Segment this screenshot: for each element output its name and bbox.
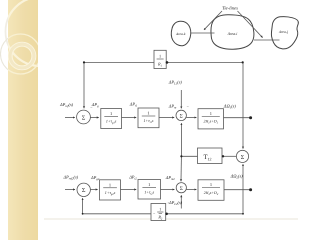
node: terminal into 1/R2 bbox=[165, 213, 168, 216]
tie summer circle bbox=[236, 150, 248, 162]
tie line i-j bbox=[254, 39, 280, 41]
faint circle arcs on white left of band bbox=[1, 0, 75, 74]
summer S2 top circle bbox=[176, 110, 186, 120]
node: corner top-left bbox=[83, 61, 85, 63]
blob Area-j bbox=[271, 17, 298, 49]
wire: S1 to governor block row1 bbox=[90, 117, 98, 119]
wire: tie feed down into S2 bottom row bbox=[180, 156, 182, 181]
blob Area-k bbox=[171, 21, 190, 45]
governor block row1 bbox=[101, 109, 122, 129]
node: tie junction bbox=[180, 155, 182, 157]
wire: input arrow row1 bbox=[65, 117, 75, 119]
turbine block row1 bbox=[138, 108, 159, 128]
inertia block row1 bbox=[198, 109, 224, 129]
summer S1 top circle bbox=[77, 110, 91, 124]
node: terminal into 1/R1 bbox=[166, 61, 169, 64]
svg-text:Σ: Σ bbox=[180, 113, 183, 119]
wire: load disturbance into S2 top bbox=[180, 90, 182, 108]
svg-text:Σ: Σ bbox=[180, 186, 183, 192]
svg-text:Σ: Σ bbox=[82, 187, 86, 194]
summer S2 bottom circle bbox=[176, 183, 186, 193]
wire: S2 to inertia block row2 bbox=[187, 189, 197, 191]
wire: feedback bottom horizontal left part bbox=[83, 213, 151, 215]
svg-text:Σ: Σ bbox=[241, 155, 245, 161]
svg-text:1: 1 bbox=[109, 182, 111, 187]
svg-text:1: 1 bbox=[210, 182, 212, 187]
wire: tie summer to T12 bbox=[222, 155, 236, 157]
pointer arrow left from Tie-lines bbox=[204, 11, 222, 30]
turbine block row2 bbox=[138, 180, 161, 200]
sidebar thin circle bbox=[1, 34, 41, 74]
wire: droop feedback down into S1 top bbox=[83, 63, 85, 109]
node: corner bottom-left bbox=[82, 213, 84, 215]
wire: turbine to S2 row2 bbox=[161, 189, 175, 191]
summer S1 bottom circle bbox=[77, 183, 90, 196]
pointer arrow right from Tie-lines bbox=[238, 11, 263, 38]
svg-text:Σ: Σ bbox=[82, 114, 86, 121]
node: corner top-right bbox=[242, 61, 244, 63]
sidebar thick ring bbox=[8, 42, 36, 70]
node: corner bottom-right bbox=[242, 213, 244, 215]
wire: feedback up into S1 bottom bbox=[82, 198, 84, 214]
wire: T12 output to junction bbox=[181, 155, 197, 157]
svg-text:1: 1 bbox=[110, 111, 112, 116]
svg-text:1: 1 bbox=[159, 54, 161, 59]
wire: feedback top horizontal left part bbox=[84, 62, 154, 64]
wire: row1 node down into tie summer bbox=[242, 118, 244, 149]
wire: feedback top horizontal right part bbox=[166, 62, 242, 64]
wire: S1 to governor block row2 bbox=[91, 189, 98, 191]
wire: S2 to inertia block row1 bbox=[186, 117, 196, 119]
svg-text:1: 1 bbox=[210, 111, 212, 116]
droop block -1/R2 bbox=[151, 204, 166, 221]
node: output terminal row2 bbox=[249, 188, 252, 191]
svg-text:Area-k: Area-k bbox=[175, 32, 186, 36]
wire: turbine to S2 row1 bbox=[159, 117, 174, 119]
inertia block row2 bbox=[198, 180, 224, 201]
svg-text:1: 1 bbox=[159, 207, 161, 212]
droop block 1/R1 bbox=[154, 50, 166, 68]
wire: feedback drop right row2 bbox=[242, 190, 244, 214]
sidebar big arc bbox=[6, 0, 75, 66]
svg-text:1: 1 bbox=[148, 182, 150, 187]
svg-text:Area-i: Area-i bbox=[227, 32, 238, 36]
blob Area-i bbox=[211, 15, 254, 49]
svg-text:Tie-lines: Tie-lines bbox=[222, 6, 238, 11]
wire: governor to turbine row1 bbox=[122, 117, 137, 119]
wire: feedback bottom horizontal right part bbox=[166, 213, 243, 215]
wire: input arrow row2 bbox=[65, 189, 75, 191]
svg-text:Area-j: Area-j bbox=[278, 30, 288, 34]
wire: governor to turbine row2 bbox=[121, 189, 137, 191]
wire: tie feed up into S2 top row bbox=[180, 123, 182, 156]
block T12 bbox=[198, 148, 223, 164]
wire: load disturbance into S2 bottom bbox=[180, 195, 182, 208]
node: output terminal row1 bbox=[249, 116, 252, 119]
node: terminal into T12 bbox=[222, 155, 224, 157]
tie line k-i bbox=[191, 32, 215, 34]
wire: feedback riser right row1 bbox=[242, 63, 244, 118]
wire: output row2 bbox=[224, 189, 250, 191]
wire: output row1 bbox=[224, 117, 250, 119]
svg-text:1: 1 bbox=[147, 111, 149, 116]
wire: row2 node up into tie summer bbox=[242, 164, 244, 190]
governor block row2 bbox=[100, 180, 121, 200]
sidebar band bbox=[8, 0, 38, 240]
faint divider line bottom bbox=[44, 218, 298, 220]
